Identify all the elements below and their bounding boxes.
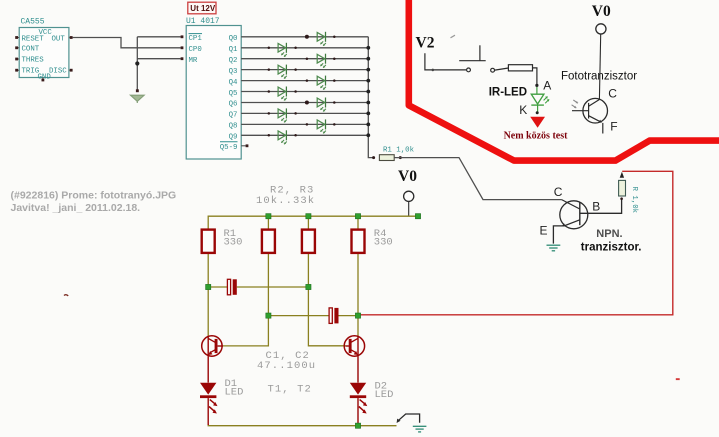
- svg-text:R1 1,0k: R1 1,0k: [383, 147, 415, 155]
- svg-text:CP1: CP1: [189, 35, 203, 43]
- svg-text:Q6: Q6: [229, 101, 238, 109]
- svg-text:GND: GND: [38, 74, 52, 82]
- svg-text:RESET: RESET: [22, 35, 45, 43]
- svg-text:B: B: [592, 200, 600, 214]
- svg-text:CA555: CA555: [21, 18, 45, 27]
- svg-text:V0: V0: [398, 168, 417, 185]
- svg-text:Ut 12V: Ut 12V: [190, 4, 216, 13]
- svg-text:IR-LED: IR-LED: [489, 87, 527, 99]
- svg-text:NPN.: NPN.: [596, 228, 622, 240]
- svg-text:Q5-9: Q5-9: [220, 144, 238, 152]
- svg-text:OUT: OUT: [52, 35, 66, 43]
- svg-text:K: K: [519, 103, 527, 117]
- svg-text:330: 330: [224, 237, 243, 249]
- svg-text:Javitva! _jani_ 2011.02.18.: Javitva! _jani_ 2011.02.18.: [11, 202, 141, 214]
- svg-text:Q5: Q5: [229, 90, 238, 98]
- svg-text:Q4: Q4: [229, 79, 238, 87]
- svg-text:Q7: Q7: [229, 112, 238, 120]
- svg-text:47..100u: 47..100u: [257, 360, 316, 372]
- svg-text:330: 330: [374, 237, 393, 249]
- svg-text:F: F: [610, 120, 617, 134]
- svg-text:Q0: Q0: [229, 35, 238, 43]
- svg-text:LED: LED: [375, 389, 394, 401]
- svg-text:CONT: CONT: [22, 45, 40, 53]
- svg-text:Q9: Q9: [229, 134, 238, 142]
- svg-text:DISC: DISC: [49, 68, 67, 76]
- svg-text:MR: MR: [189, 57, 198, 65]
- svg-text:C: C: [608, 86, 617, 100]
- svg-text:Q8: Q8: [229, 123, 238, 131]
- svg-text:Fototranzisztor: Fototranzisztor: [561, 71, 637, 83]
- svg-text:T1, T2: T1, T2: [268, 383, 312, 395]
- svg-text:Nem közös test: Nem közös test: [504, 130, 569, 141]
- svg-text:CP0: CP0: [189, 46, 202, 54]
- svg-text:C: C: [554, 185, 563, 199]
- svg-text:Q2: Q2: [229, 57, 238, 65]
- svg-text:(#922816) Prome: fototranyó.J: (#922816) Prome: fototranyó.JPG: [11, 190, 177, 202]
- svg-text:E: E: [540, 224, 548, 238]
- svg-text:Q1: Q1: [229, 46, 238, 54]
- svg-text:V2: V2: [416, 35, 435, 52]
- svg-text:A: A: [543, 78, 551, 92]
- svg-text:R 1,0k: R 1,0k: [630, 187, 638, 214]
- svg-text:tranzisztor.: tranzisztor.: [581, 241, 642, 253]
- svg-text:10k..33k: 10k..33k: [256, 195, 315, 207]
- svg-text:Q3: Q3: [229, 68, 238, 76]
- svg-text:U1 4017: U1 4017: [186, 17, 220, 26]
- svg-text:V0: V0: [592, 3, 611, 20]
- svg-text:THRES: THRES: [22, 57, 45, 65]
- svg-text:LED: LED: [225, 387, 244, 399]
